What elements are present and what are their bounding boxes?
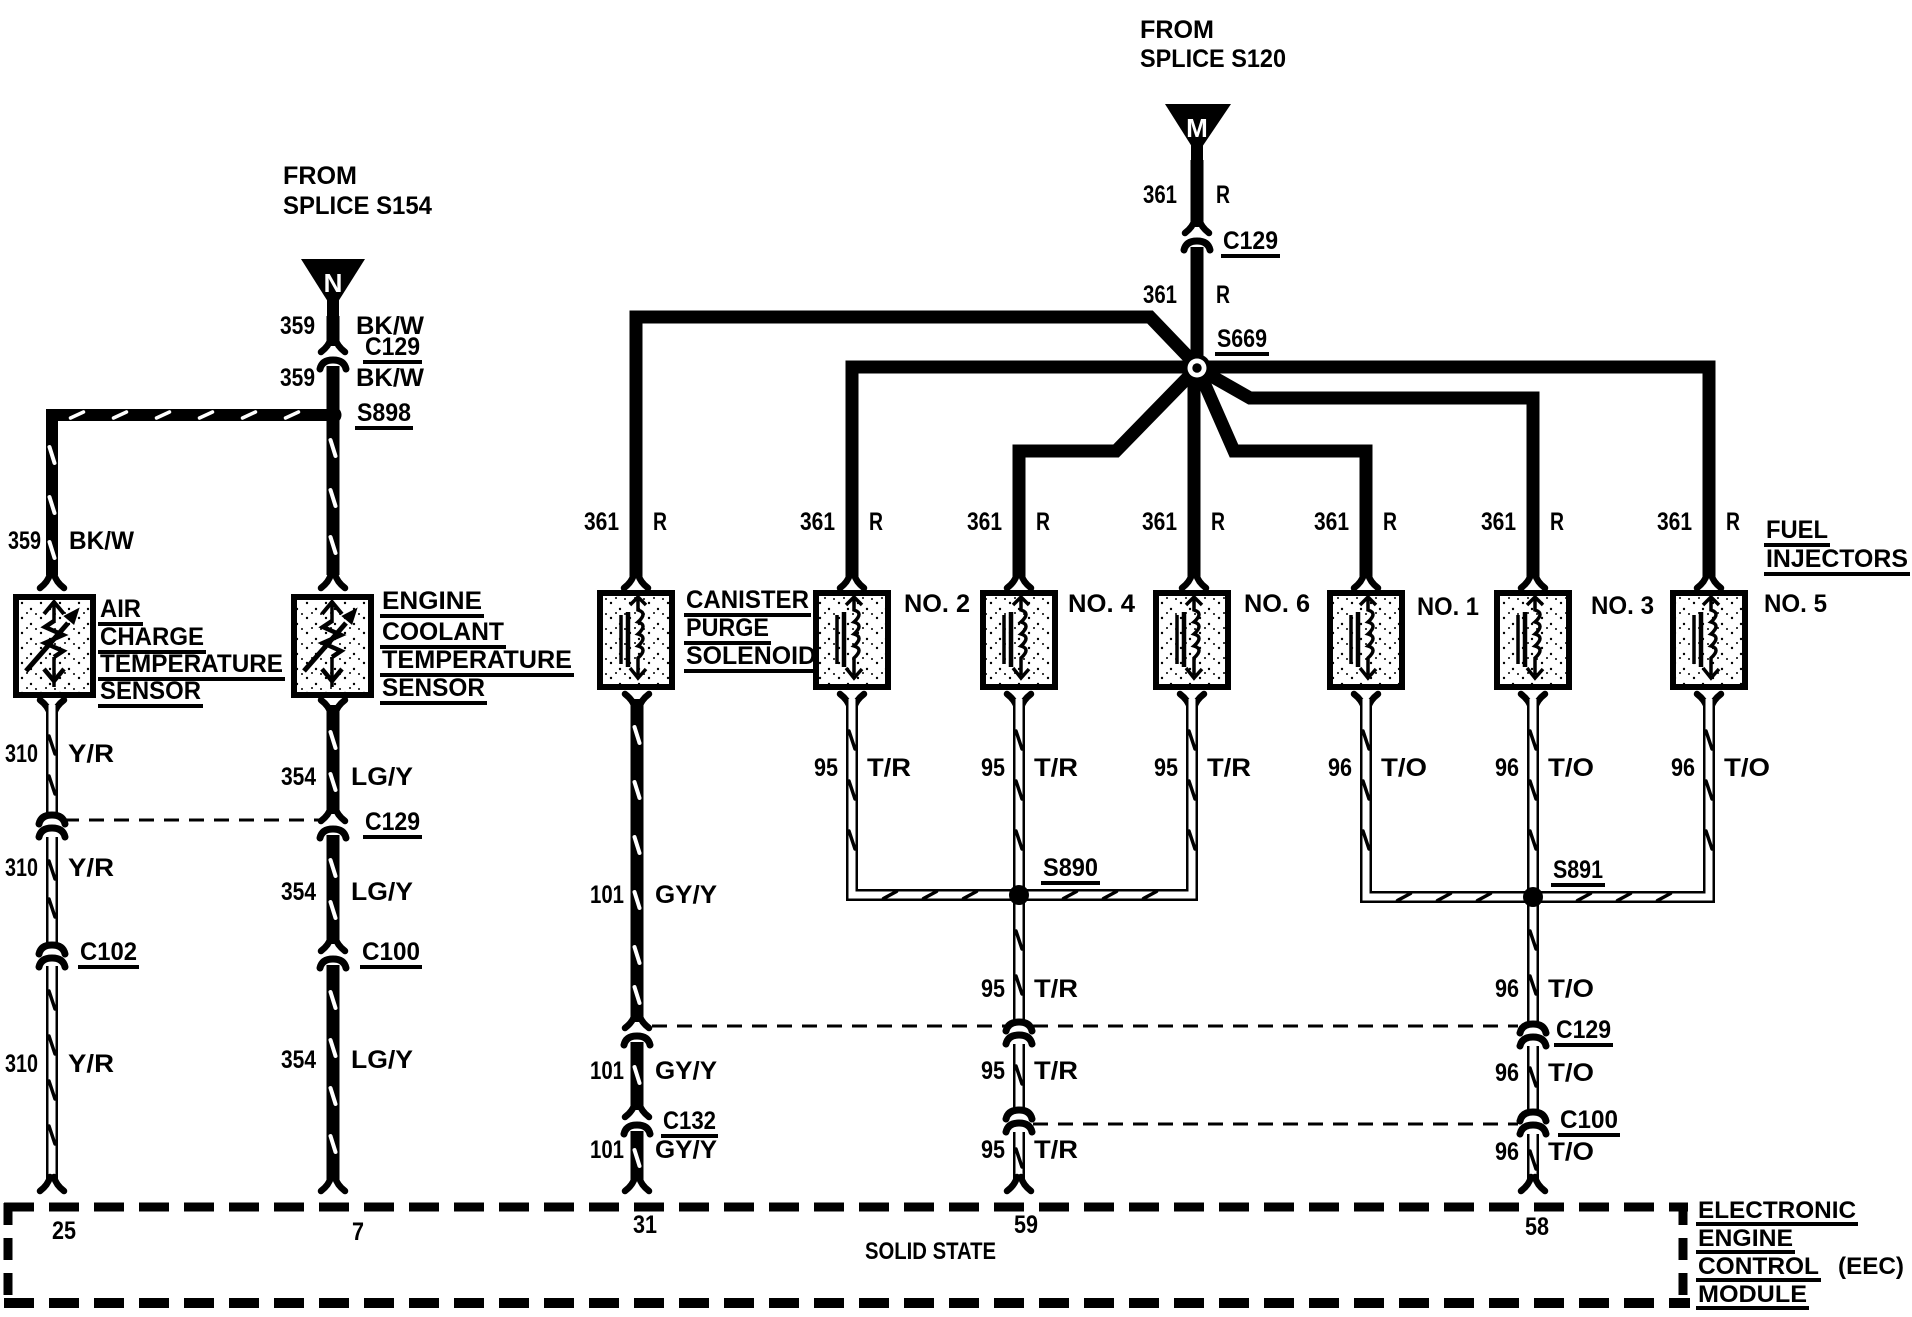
triangle M (from splice S120) [1165,104,1231,150]
svg-text:GY/Y: GY/Y [655,1057,717,1085]
terminal above box x=1019 [1007,574,1017,588]
svg-text:(EEC): (EEC) [1838,1253,1904,1280]
svg-text:361: 361 [1143,281,1177,309]
wire 354 LG/Y segment 3 [327,965,340,1180]
svg-text:C100: C100 [362,938,420,966]
connector C102 [39,945,65,954]
wire 359 BK/W (C129 to S898) [327,366,340,411]
svg-text:N: N [324,268,343,298]
svg-text:T/R: T/R [1034,1136,1078,1164]
injector no.6 box [1156,593,1228,687]
engine coolant temperature sensor box [294,597,371,695]
splice S669 [1183,354,1211,382]
terminal at coolant sensor [321,574,331,588]
connector (to C129 dashed) [39,815,65,824]
svg-text:354: 354 [281,1046,316,1074]
svg-text:AIR: AIR [100,595,141,623]
terminal at EEC pin 59 [1007,1177,1017,1191]
wire 359 BK/W (S898 to coolant sensor) [327,415,340,575]
terminal above box x=1709 [1697,574,1707,588]
wire 359 BK/W upper (N to C129) [327,316,340,346]
EEC module dashed box [4,1203,1688,1212]
svg-text:T/O: T/O [1548,1059,1594,1087]
svg-text:T/O: T/O [1724,754,1770,782]
wire 310 Y/R segment 1 [46,705,58,813]
svg-text:Y/R: Y/R [68,1050,114,1078]
connector (C100 dashed) on 95 wire [1006,1110,1032,1119]
svg-text:96: 96 [1495,1059,1519,1087]
terminal below injector box x=1533 [1521,694,1531,708]
dashed line to C100 (bottom) [1033,1123,1518,1126]
label ENGINE COOLANT TEMPERATURE SENSOR [380,587,574,703]
svg-text:CANISTER: CANISTER [686,586,809,614]
thermistor symbol (sensor) [44,601,64,687]
label S891 [1551,856,1605,885]
connector (to C129 dashed) [625,1014,635,1028]
wire 310 Y/R segment 2 [46,837,58,943]
label AIR CHARGE TEMPERATURE SENSOR [98,595,285,706]
svg-text:LG/Y: LG/Y [351,878,413,906]
connector C129 (N branch) [321,338,331,352]
svg-text:361: 361 [967,508,1002,536]
terminal at EEC pin 58 [1521,1177,1531,1191]
svg-text:361: 361 [1657,508,1692,536]
svg-text:FUEL: FUEL [1766,516,1828,544]
svg-text:95: 95 [981,975,1005,1003]
svg-text:NO. 4: NO. 4 [1068,590,1135,618]
svg-text:354: 354 [281,763,316,791]
label C129 [363,808,422,837]
svg-text:TEMPERATURE: TEMPERATURE [100,650,283,678]
svg-text:95: 95 [981,1057,1005,1085]
svg-text:T/O: T/O [1548,975,1594,1003]
svg-text:96: 96 [1671,754,1695,782]
wire 96 T/O segment 2 [1527,1046,1539,1111]
wire 361 R (C129 to S669) [1191,247,1204,360]
connector (C129 dashed) on 95 wire [1006,1022,1032,1031]
connector C100 [321,937,331,951]
injector no.4 box [983,593,1055,687]
wire 361 R to canister purge solenoid [636,317,1197,577]
terminal below coolant sensor [321,700,331,714]
svg-text:T/R: T/R [1034,1057,1078,1085]
svg-text:R: R [1383,508,1397,536]
solenoid coil symbol [621,597,646,678]
solenoid coil symbol [1518,597,1543,678]
svg-text:S669: S669 [1217,325,1267,353]
terminal below injector box x=1366 [1354,694,1364,708]
svg-text:S891: S891 [1553,856,1603,884]
terminal below air charge sensor [40,700,50,714]
label C100 [360,938,422,967]
connector C132 [625,1103,635,1117]
wire 354 LG/Y segment 2 [327,835,340,944]
terminal below injector box x=852 [840,694,850,708]
svg-text:MODULE: MODULE [1698,1281,1807,1308]
label S669 [1215,325,1269,354]
svg-text:95: 95 [981,1136,1005,1164]
svg-text:R: R [653,508,667,536]
injector no.2 box [816,593,888,687]
label FUEL INJECTORS [1764,516,1910,574]
svg-text:359: 359 [280,312,315,340]
svg-text:R: R [1726,508,1740,536]
svg-text:PURGE: PURGE [686,614,769,642]
canister purge solenoid box [600,593,672,687]
terminal at EEC pin 25 [40,1177,50,1191]
label C100 (right) [1558,1106,1620,1135]
wire 95 T/R segment 3 [1013,1132,1025,1180]
terminal above box x=852 [840,574,850,588]
terminal above box x=636 [624,574,634,588]
svg-text:101: 101 [590,1136,624,1164]
terminal above box x=1194 [1182,574,1192,588]
svg-text:58: 58 [1525,1213,1549,1241]
wire 101 GY/Y segment 3 [631,1131,644,1180]
svg-text:R: R [869,508,883,536]
svg-text:R: R [1036,508,1050,536]
svg-text:C102: C102 [80,938,137,966]
label S890 [1041,854,1100,883]
label C129 (right) [1554,1016,1613,1045]
svg-text:101: 101 [590,881,624,909]
svg-text:361: 361 [1481,508,1516,536]
wire 96 T/O from injector no.5 [1540,699,1709,897]
svg-text:GY/Y: GY/Y [655,1136,717,1164]
thermistor symbol (sensor) [322,601,342,687]
svg-text:310: 310 [5,1050,38,1078]
wire 96 T/O segment 3 [1527,1134,1539,1180]
svg-text:T/R: T/R [867,754,911,782]
svg-text:96: 96 [1495,975,1519,1003]
svg-text:Y/R: Y/R [68,740,114,768]
svg-text:CONTROL: CONTROL [1698,1253,1819,1280]
svg-text:SENSOR: SENSOR [382,674,485,702]
wire 96 T/O from injector no.1 [1366,699,1526,897]
svg-text:COOLANT: COOLANT [382,618,504,646]
solenoid coil symbol [1694,597,1719,678]
svg-text:SOLID STATE: SOLID STATE [865,1238,996,1265]
label ELECTRONIC ENGINE CONTROL (EEC) MODULE [1696,1197,1904,1308]
svg-text:SENSOR: SENSOR [100,677,201,705]
svg-text:354: 354 [281,878,316,906]
svg-text:CHARGE: CHARGE [100,623,204,651]
svg-text:FROM: FROM [1140,16,1214,44]
wire 361 R to injector no.6 [1188,368,1201,577]
wire 95 T/R from injector no.6 [1026,699,1192,895]
wire 361 R to injector no.2 [852,367,1197,577]
svg-text:361: 361 [800,508,835,536]
solenoid coil symbol [1177,597,1202,678]
svg-text:NO. 2: NO. 2 [904,590,970,618]
svg-text:ELECTRONIC: ELECTRONIC [1698,1197,1856,1224]
terminal at air charge sensor [40,574,50,588]
svg-text:SOLENOID: SOLENOID [686,642,816,670]
connector C100 on 96 wire [1520,1112,1546,1121]
svg-text:310: 310 [5,740,38,768]
triangle N (from splice S154) [301,259,365,305]
solenoid coil symbol [837,597,862,678]
wire 361 R to injector no.4 [1019,369,1196,577]
svg-text:361: 361 [1143,181,1177,209]
wire 359 BK/W horizontal from S898 [52,409,333,421]
solenoid coil symbol [1004,597,1029,678]
svg-text:SPLICE S154: SPLICE S154 [283,192,432,220]
svg-text:NO. 5: NO. 5 [1764,590,1827,618]
label C102 [78,938,139,967]
svg-text:310: 310 [5,854,38,882]
svg-text:95: 95 [814,754,838,782]
svg-text:95: 95 [981,754,1005,782]
svg-text:NO. 3: NO. 3 [1591,592,1654,620]
svg-text:96: 96 [1495,1138,1519,1166]
svg-text:361: 361 [1314,508,1349,536]
svg-text:R: R [1550,508,1564,536]
svg-text:C129: C129 [365,333,420,361]
label S898 [355,399,413,428]
wire 361 R (M to C129) [1191,160,1204,227]
svg-text:ENGINE: ENGINE [382,587,482,615]
svg-text:T/R: T/R [1034,975,1078,1003]
wire 361 R to injector no.1 [1198,369,1366,577]
svg-text:T/O: T/O [1381,754,1427,782]
svg-text:Y/R: Y/R [68,854,114,882]
wire 361 R to injector no.5 [1199,367,1709,577]
label CANISTER PURGE SOLENOID [684,586,818,671]
svg-text:C132: C132 [663,1107,716,1135]
wire 361 R to injector no.3 [1199,369,1533,577]
label C129 [363,333,422,362]
injector no.5 box [1673,593,1745,687]
svg-text:NO. 1: NO. 1 [1417,593,1479,621]
svg-text:T/R: T/R [1207,754,1251,782]
label C129 [1221,227,1280,256]
svg-text:GY/Y: GY/Y [655,881,717,909]
svg-text:ENGINE: ENGINE [1698,1225,1793,1252]
svg-text:SPLICE S120: SPLICE S120 [1140,45,1286,73]
svg-text:361: 361 [1142,508,1177,536]
svg-text:96: 96 [1495,754,1519,782]
connector C129 (coolant wire) [321,807,331,821]
splice S890 [1009,885,1029,905]
svg-text:C129: C129 [1223,227,1278,255]
svg-text:TEMPERATURE: TEMPERATURE [382,646,572,674]
terminal at EEC pin 7 [321,1177,331,1191]
svg-text:INJECTORS: INJECTORS [1766,545,1908,573]
svg-text:R: R [1211,508,1225,536]
injector no.1 box [1330,593,1402,687]
svg-text:LG/Y: LG/Y [351,1046,413,1074]
svg-text:S898: S898 [357,399,411,427]
splice S898 [325,407,342,424]
svg-text:C129: C129 [365,808,420,836]
svg-text:M: M [1186,113,1208,143]
svg-text:BK/W: BK/W [69,527,134,555]
svg-text:59: 59 [1014,1211,1038,1239]
connector C129 on 96 wire [1520,1024,1546,1033]
svg-text:S890: S890 [1043,854,1098,882]
wire 101 GY/Y segment 1 [631,699,644,1022]
terminal below injector box x=1192 [1180,694,1190,708]
svg-text:R: R [1216,181,1230,209]
wire 95 T/R from injector no.2 [852,699,1012,895]
svg-text:FROM: FROM [283,162,357,190]
terminal below canister purge solenoid [625,694,635,708]
wire 95 T/R segment 2 [1013,1044,1025,1109]
svg-text:LG/Y: LG/Y [351,763,413,791]
terminal above box x=1366 [1354,574,1364,588]
svg-text:96: 96 [1328,754,1352,782]
terminal below injector box x=1019 [1007,694,1017,708]
svg-text:BK/W: BK/W [356,364,424,392]
svg-text:361: 361 [584,508,619,536]
wire 354 LG/Y segment 1 [327,705,340,814]
svg-text:25: 25 [52,1217,76,1245]
dashed line to C129 (left) [64,819,320,822]
svg-text:T/O: T/O [1548,754,1594,782]
svg-text:359: 359 [8,527,41,555]
svg-text:7: 7 [352,1218,364,1246]
svg-text:T/R: T/R [1034,754,1078,782]
air charge temperature sensor box [16,597,93,695]
solenoid coil symbol [1351,597,1376,678]
dashed line to C129 (bottom) [652,1025,1005,1028]
svg-text:101: 101 [590,1057,624,1085]
terminal at EEC pin 31 [625,1177,635,1191]
label C132 [661,1107,718,1136]
splice S891 [1523,887,1543,907]
connector C129 (M branch) [1185,219,1195,233]
svg-text:31: 31 [633,1211,657,1239]
svg-text:NO. 6: NO. 6 [1244,590,1310,618]
svg-text:95: 95 [1154,754,1178,782]
wire 310 Y/R segment 3 [46,966,58,1180]
injector no.3 box [1497,593,1569,687]
svg-text:359: 359 [280,364,315,392]
svg-text:C129: C129 [1556,1016,1611,1044]
svg-text:R: R [1216,281,1230,309]
svg-text:T/O: T/O [1548,1138,1594,1166]
terminal below injector box x=1709 [1697,694,1707,708]
wire 95 T/R from injector no.4 down [1013,699,1025,1021]
wire 101 GY/Y segment 2 [631,1042,644,1110]
svg-text:C100: C100 [1560,1106,1618,1134]
wire 96 T/O from injector no.3 down [1527,699,1539,1023]
terminal above box x=1533 [1521,574,1531,588]
wire 359 BK/W left drop to air charge sensor [46,409,58,575]
